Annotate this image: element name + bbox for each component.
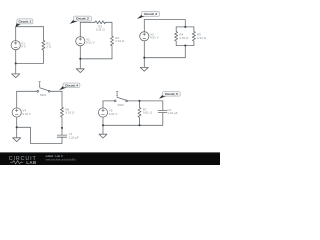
svg-text:9.01 V: 9.01 V: [86, 41, 95, 45]
wire: circuit 3 V3 to ground node: [143, 41, 145, 57]
wire: circuit 2 bottom rail: [80, 58, 112, 60]
svg-text:1.01 µF: 1.01 µF: [69, 135, 79, 139]
wire: circuit 1 left, below V1: [15, 50, 17, 63]
node dot: circuit 5 R7 top junction: [138, 100, 140, 102]
footer bar: [0, 152, 220, 165]
svg-text:Circuit_2: Circuit_2: [76, 17, 89, 21]
label R5 value: [197, 33, 207, 40]
svg-text:Circuit_3: Circuit_3: [144, 12, 157, 16]
node dot: circuit 4 R6-C1 wire: [61, 127, 63, 129]
node flag Circuit_3: [137, 11, 160, 19]
svg-text:9.01 Ω: 9.01 Ω: [65, 111, 75, 115]
svg-text:9.01 Ω: 9.01 Ω: [143, 111, 153, 115]
label V1 value: [21, 41, 26, 48]
svg-text:2.91 Ω: 2.91 Ω: [96, 28, 106, 32]
wire: circuit 1 left, top of V1: [15, 27, 17, 41]
ground: circuit 2: [79, 59, 81, 69]
wire: circuit 5 top rail left: [103, 100, 114, 102]
label V3 value: [150, 32, 159, 39]
node flag Circuit_4: [59, 83, 80, 90]
svg-text:LAB: LAB: [26, 160, 37, 165]
node dot: circuit 4 ground junction: [16, 126, 18, 128]
label C1 value: [69, 132, 79, 139]
voltage source V4: [16, 91, 18, 107]
label C2 value: [167, 108, 177, 115]
label V4 value: [22, 109, 31, 116]
wire: circuit 4 top rail right: [50, 90, 62, 92]
wire: circuit 3 bottom feed: [144, 46, 185, 58]
voltage source V5: [102, 101, 104, 108]
svg-text:2.91 Ω: 2.91 Ω: [179, 36, 189, 40]
wire: circuit 3 top rail: [144, 20, 185, 27]
ground: circuit 1: [15, 63, 17, 74]
capacitor C2: [158, 109, 167, 111]
svg-text:Circuit_4: Circuit_4: [65, 83, 78, 87]
svg-text:SW1: SW1: [40, 93, 47, 97]
node dot: circuit 2 ground junction: [79, 58, 81, 60]
wire: circuit 4 V4 to ground node: [16, 118, 18, 128]
node dot: circuit 3 top bus junction: [184, 26, 186, 28]
resistor R7: [138, 101, 141, 125]
label R6 value: [65, 107, 75, 114]
svg-text:1.01 µF: 1.01 µF: [167, 111, 177, 115]
svg-text:Circuit_5: Circuit_5: [165, 92, 178, 96]
voltage source V2: [79, 22, 81, 36]
wire: circuit 5 top rail right: [128, 101, 163, 111]
resistor R5: [192, 27, 195, 46]
svg-text:www.circuitlab.com/c/py6d8ia: www.circuitlab.com/c/py6d8ia: [46, 158, 77, 161]
resistor R2: [95, 21, 106, 24]
node flag Circuit_5: [159, 92, 180, 99]
resistor R1: [42, 27, 45, 64]
svg-text:2.91 Ω: 2.91 Ω: [197, 36, 207, 40]
capacitor C1: [57, 134, 66, 136]
wire: circuit 2 V2 to ground node: [79, 46, 81, 59]
svg-text:2.91 Ω: 2.91 Ω: [115, 39, 125, 43]
voltage source V1: [11, 41, 20, 50]
node dot: circuit 3 ground junction: [143, 57, 145, 59]
label V5 value: [109, 109, 118, 116]
node dot: circuit 5 R7 bottom junction: [138, 124, 140, 126]
ground: circuit 5: [102, 125, 104, 134]
footer CircuitLab logo: [9, 156, 37, 165]
wire: circuit 2 top rail left: [80, 21, 95, 23]
ground: circuit 3: [143, 58, 145, 68]
svg-text:9.01 V: 9.01 V: [109, 112, 118, 116]
svg-text:Circuit_1: Circuit_1: [18, 20, 31, 24]
label R3 value: [115, 36, 125, 43]
ground: circuit 4: [16, 127, 18, 138]
wire: circuit 1 bottom rail: [16, 62, 44, 64]
svg-text:edited : Lab 0: edited : Lab 0: [46, 154, 63, 158]
label R2 value: [96, 24, 106, 31]
resistor R3: [111, 36, 114, 59]
svg-text:1 Ω: 1 Ω: [46, 45, 52, 49]
wire: circuit 4 bottom path: [17, 127, 62, 143]
wire: circuit 3 parallel bottom bus: [176, 45, 194, 47]
resistor R6: [61, 91, 64, 135]
label V2 value: [86, 37, 95, 44]
resistor R4: [175, 27, 178, 46]
wire: circuit 5 C2 to bottom rail: [162, 113, 164, 126]
svg-text:9.01 V: 9.01 V: [150, 36, 159, 40]
node dot: circuit 5 ground junction: [102, 124, 104, 126]
node flag Circuit_1: [16, 19, 33, 27]
wire: circuit 5 bottom rail: [103, 124, 163, 126]
node flag Circuit_2: [70, 16, 92, 24]
svg-text:9.01 V: 9.01 V: [22, 112, 31, 116]
node dot: circuit 3 bottom bus junction: [184, 44, 186, 46]
switch SW1: [37, 90, 39, 92]
label R1 value: [46, 41, 52, 48]
node dot: circuit 1 ground junction: [15, 62, 17, 64]
wire: circuit 3 parallel top bus: [176, 26, 194, 28]
label R7 value: [143, 107, 153, 114]
label R4 value: [179, 33, 189, 40]
svg-text:SW2: SW2: [117, 103, 124, 107]
voltage source V3: [143, 20, 145, 32]
wire: circuit 2 top rail right: [106, 22, 113, 36]
svg-text:9 V: 9 V: [21, 45, 26, 49]
wire: circuit 1 top rail: [16, 26, 44, 28]
wire: circuit 5 V5 to ground node: [102, 118, 104, 126]
switch SW2: [114, 100, 116, 102]
wire: circuit 4 top rail left: [17, 90, 37, 92]
